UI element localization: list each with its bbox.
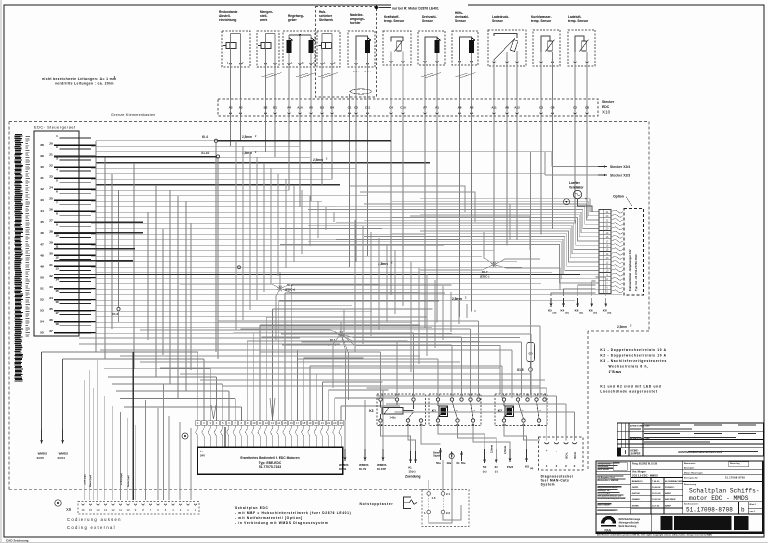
wire [96,294,622,296]
wire [260,325,540,327]
svg-text:31: 31 [495,465,499,469]
svg-text:Baumuster: Baumuster [684,462,696,465]
svg-text:17: 17 [296,421,299,425]
wire [299,117,301,207]
svg-text:Sachnummer:: Sachnummer: [684,504,699,506]
svg-text:Schaltplan EDC: Schaltplan EDC [235,506,269,510]
svg-text:27: 27 [49,219,53,223]
wire [302,341,522,343]
wires A7 A1 [425,37,437,60]
inductive pickup Hilfsdrehzahl [469,40,474,53]
svg-text:verdrillte Leitungen : ca. 20/: verdrillte Leitungen : ca. 20/m [55,82,114,86]
plug X1 dashed box [422,490,469,527]
wire [96,184,340,186]
svg-text:45: 45 [40,220,44,224]
pins of Mengenstellwerk [264,63,267,65]
zigzag pin [611,277,623,280]
svg-text:EDC- Steuergeraet: EDC- Steuergeraet [34,126,76,130]
wire [91,233,425,235]
wire [288,117,290,190]
svg-text:12: 12 [265,421,268,425]
wire [88,370,90,500]
svg-text:42: 42 [40,187,44,191]
wire [285,292,445,294]
potentiometer symbols in Regelweggeber [286,40,291,53]
wire [434,280,436,348]
zigzag pin [611,260,623,263]
wire to X2/4 [552,166,598,168]
wire [279,300,439,302]
zigzag pin [611,281,623,284]
svg-text:2,5mm: 2,5mm [490,444,494,453]
wire [315,374,317,421]
wire [556,396,558,441]
wire [185,201,187,391]
junction star Kl.1 Bat- [341,334,344,335]
wire [169,190,171,384]
wire [259,325,261,421]
svg-text:+: + [585,197,587,201]
wire [501,366,503,398]
svg-text:Codierung aussen: Codierung aussen [67,517,122,522]
svg-text:Werk Nuernberg: Werk Nuernberg [619,526,637,528]
wire sensor1 pin A3 [230,49,232,118]
svg-text:(Bat-): (Bat-) [328,343,336,347]
wire [298,358,438,360]
relay K1 pin 14 [469,398,472,401]
main title block frame [596,461,763,533]
annotation nur bei R: Motor D2876 LE401 [374,6,379,10]
svg-text:FODER 1: FODER 1 [665,487,675,489]
svg-text:50: 50 [483,465,487,469]
wire drop from Kl.10 [217,158,219,359]
wire [402,117,404,289]
svg-text:Kl. 50e: Kl. 50e [457,461,466,465]
wire [426,274,428,356]
wire [521,342,523,398]
svg-text:System: System [541,483,555,487]
wire [111,174,113,329]
power wire from Kl.4 [218,140,391,142]
wire [310,365,370,367]
fuse G6 [527,343,535,362]
wire [418,268,420,364]
svg-text:13: 13 [104,508,107,512]
relay K3 pin 15 [412,398,415,401]
arrow Kl.15P [382,449,384,461]
wire [284,293,286,421]
wire [392,201,599,216]
svg-text:▕▏: ▕▏ [623,450,628,454]
wire [190,428,192,500]
wire [83,380,85,500]
wire [147,212,149,340]
zigzag pin [611,214,623,217]
wire [260,324,420,326]
svg-text:20: 20 [315,421,318,425]
wire [240,407,242,421]
junction star Kl.7 EDC- [494,265,497,266]
wire [436,117,438,322]
svg-text:b: b [741,507,745,514]
zigzag pin [611,227,623,230]
svg-text:K3 - Nachlieferzeitgesteuert: K3 - Nachlieferzeitgesteuertes [600,359,667,363]
svg-text:13: 13 [271,421,274,425]
wire [140,330,341,334]
svg-text:16: 16 [290,421,293,425]
fanout wires from Kl.2 [280,284,380,289]
svg-text:51.17098-8708: 51.17098-8708 [725,477,745,480]
wire [96,217,437,219]
zigzag pin [611,231,623,234]
svg-text:- in Verbindung mit WMDS Diagn: - in Verbindung mit WMDS Diagnosesystem [235,521,328,525]
wires to WMDS arrows [344,420,346,449]
wire [325,207,327,230]
wire [104,368,210,370]
X9 coding connector dashed box [78,502,199,515]
revision text bars [644,425,680,426]
svg-text:Aktiengesellschaft: Aktiengesellschaft [619,521,640,524]
arrows Kl.15 Zuendung [410,451,412,463]
wire [511,350,513,398]
svg-text:MAN: MAN [605,530,611,534]
diagnostic pin 4 [554,442,558,444]
svg-text:22: 22 [526,394,530,398]
svg-text:- mit MBF = Hubschieberstellwe: - mit MBF = Hubschieberstellwerk (fuer D… [235,511,351,515]
svg-text:48: 48 [40,253,44,257]
svg-text:Typ: CA - 01 // 51.27720-7013: Typ: CA - 01 // 51.27720-7013 [634,254,638,291]
wires A4 A10 A5 [289,34,311,36]
svg-text:10.08.02: 10.08.02 [652,487,661,489]
svg-text:39: 39 [40,154,44,158]
wire [539,326,541,398]
svg-text:43: 43 [40,198,44,202]
svg-text:temp. Sensor: temp. Sensor [568,19,589,23]
wire [297,349,357,351]
relay K2 pin + [502,398,505,401]
svg-text:Drehz (opt): Drehz (opt) [127,475,130,487]
wire [304,357,364,359]
svg-text:Stecker X2/3: Stecker X2/3 [610,174,630,178]
wire [335,397,395,399]
svg-text:KS: KS [525,464,529,468]
wire [390,117,392,295]
zigzag pin [611,218,623,221]
relay K1 pin 24 [450,398,453,401]
wire [293,185,295,262]
solenoid symbol in Mengenstellwerk [261,43,271,49]
wire [437,359,439,398]
svg-text:(33): (33) [593,313,597,315]
svg-text:A1: A1 [435,106,439,110]
wire [190,223,192,370]
arrow Kl.59 [344,449,346,461]
wire [91,332,452,334]
relay K1 pin 11 [471,419,474,422]
svg-text:geber: geber [288,18,297,22]
svg-text:Kl.4: Kl.4 [202,135,208,139]
relay K3 internal wires [380,401,382,407]
wire [91,211,560,213]
wire [494,265,560,290]
wire [420,215,599,237]
relay K2 pin 11 [537,419,540,422]
svg-text:7.06.00: 7.06.00 [652,481,660,483]
svg-text:C2: C2 [573,106,577,110]
twist mark Drehzahl pair [421,73,433,77]
wire [97,360,99,500]
wire [96,316,392,318]
wire [328,390,330,421]
wire [280,228,599,257]
outer trim line left [0,0,2,543]
wire [317,201,319,238]
svg-text:X1.6: X1.6 [112,312,119,316]
svg-text:Notstopptaster: Notstopptaster [360,502,394,506]
diagnostic pin 1 [545,442,549,444]
zigzag wires under strip [196,425,198,447]
plug pin 1.4 [427,510,431,514]
svg-text:Signal: Signal [433,455,441,458]
svg-text:1° B aus: 1° B aus [609,370,622,374]
svg-text:A3: A3 [229,106,233,110]
relay K3 pin A2 [379,419,382,422]
pins of Drehzahl sensor [424,61,427,63]
wires A11 A6 A12 [493,60,495,117]
wire [145,400,147,500]
svg-text:+: + [546,449,548,453]
twist mark Hubschieber pair [318,73,330,77]
svg-text:16: 16 [82,508,85,512]
wire [380,352,382,398]
relay K1 coil [439,406,448,417]
wire [341,334,346,420]
svg-text:von 1: von 1 [750,511,756,513]
svg-text:2,5mm: 2,5mm [242,151,252,155]
wire [124,406,241,408]
wire fan to strip [578,199,600,212]
svg-text:GEPR.: GEPR. [632,487,639,489]
wire [91,167,356,169]
wire [118,190,120,307]
svg-text:12: 12 [543,394,547,398]
wire [370,232,372,336]
wire [266,316,426,318]
up arrows 50a 49a 50e [440,448,442,460]
svg-text:K2: K2 [498,409,502,413]
svg-text:Grenze Klemmenkasten: Grenze Klemmenkasten [111,113,156,117]
svg-text:47: 47 [40,242,44,246]
svg-text:Ventilator: Ventilator [569,186,584,190]
svg-text:Kl.15P: Kl.15P [377,467,386,471]
svg-text:BEARB.19: BEARB.19 [632,480,644,483]
arrow WMDS X1.55 [41,430,43,444]
svg-text:K2 - Doppelwechselrelais 10: K2 - Doppelwechselrelais 10 A [600,354,666,358]
svg-text:A8: A8 [458,106,462,110]
wire [424,117,426,328]
wire [96,173,545,175]
wire [301,190,303,254]
svg-text:SUPPER: SUPPER [631,453,641,456]
wire to fuse G6 [530,152,532,342]
wires into Kl.7 node [494,259,540,265]
wire [219,320,479,322]
pins of Hubschieber [321,63,324,65]
zigzag pin [611,239,623,242]
svg-text:nur bei R: Motor D2876 LE401: nur bei R: Motor D2876 LE401 [392,6,439,10]
wire [273,308,433,310]
svg-text:24: 24 [340,421,343,425]
wire [103,396,105,500]
wire [247,340,397,342]
svg-text:EDC: EDC [602,105,610,109]
svg-text:Sensor: Sensor [492,19,504,23]
wire [478,321,480,398]
wire [197,352,199,421]
power wire [54,260,133,262]
svg-text:41: 41 [40,176,44,180]
svg-text:- mit Notfahrmatenteil [Option: - mit Notfahrmatenteil [Option] [235,516,303,520]
zigzag pin [611,290,623,293]
svg-text:2,5mm: 2,5mm [503,445,507,454]
wire [112,383,223,385]
relay K3 pin B1 [395,398,398,401]
wire [120,355,420,357]
diagnostic pin 3 [572,442,576,444]
option dashed box Hubschieber/Nadelbewegung group [316,7,377,98]
wire X1.5 down [530,371,532,394]
svg-text:K1: K1 [432,409,436,413]
wire [408,422,416,451]
svg-text:C11: C11 [365,106,371,110]
fan motor symbol [573,190,581,198]
wire [552,117,554,229]
wire [310,117,312,201]
svg-text:Erweitertes Bedienteil f. EDC: Erweitertes Bedienteil f. EDC Motoren [240,456,299,460]
arrow WMDS X1.54 [62,430,64,444]
wire [386,403,566,405]
wire [247,341,249,421]
svg-text:35: 35 [49,307,53,311]
nested corner wires upper mid [350,186,465,212]
Klemmenkasten dashed boundary bottom [9,489,430,491]
screen dashes [353,71,359,73]
svg-text:nach WERK: nach WERK [597,469,609,471]
relay K2 dashed box [495,394,547,426]
option receiver dashed box [624,209,644,296]
svg-text:MAN Nutzfahrzeuge: MAN Nutzfahrzeuge [619,518,641,521]
wire [241,328,471,330]
svg-text:2.2: 2.2 [446,511,450,515]
wire [177,196,179,399]
wire [504,422,527,449]
Diagnosestecker dashed box [539,437,584,470]
svg-text:10.10.02: 10.10.02 [652,493,661,495]
svg-text:22: 22 [49,163,53,167]
wire [230,117,232,146]
svg-text:Freig. 01/2002 W. 10:36: Freig. 01/2002 W. 10:36 [632,463,658,465]
svg-text:23: 23 [333,421,336,425]
svg-text:2,5mm: 2,5mm [313,158,323,162]
wire [394,250,396,314]
twist mark Mengenstellwerk pair [262,73,274,77]
svg-text:16: 16 [55,300,59,304]
relay K1 dashed box [429,394,481,426]
svg-text:+24V (opt): +24V (opt) [84,474,87,485]
svg-text:30: 30 [49,252,53,256]
Klemmenkasten dashed boundary right upper [648,122,650,332]
wire [135,425,137,500]
title block right column [683,468,763,470]
wire [451,345,453,398]
wire [410,216,530,250]
zigzag pin [611,286,623,289]
wire [308,226,599,254]
wire [392,234,599,267]
wire [96,261,517,263]
wire [254,332,414,334]
wire drop from Kl.4 [215,142,217,352]
thick wire pin5 [224,427,226,447]
svg-text:Wechselrelais 6 h,: Wechselrelais 6 h, [609,365,649,369]
wire [91,321,412,323]
svg-text:40: 40 [40,165,44,169]
wire [364,220,599,245]
svg-text:15(+): 15(+) [408,470,415,474]
wire [349,117,351,267]
wire [96,250,494,252]
svg-text:52: 52 [40,297,44,301]
title block disclaimer line [596,531,763,533]
wire [140,361,460,363]
svg-text:Erzeugnis-Nr.: Erzeugnis-Nr. [684,478,698,480]
svg-text:(34): (34) [607,312,611,315]
arrow 31 minus [495,449,497,463]
wire [392,218,599,242]
wire [279,272,281,287]
svg-text:10: 10 [252,421,255,425]
EDC Steuergeraet block [34,131,79,336]
pins of Abstelleinrichtung [229,63,232,65]
svg-text:Basisplan: Basisplan [684,468,695,470]
svg-text:Luefter: Luefter [569,181,581,185]
svg-text:Sensor: Sensor [455,19,467,23]
svg-text:Schaltplan Schiffs-: Schaltplan Schiffs- [689,488,760,495]
wire [132,352,134,500]
wire [321,117,323,185]
revision table [617,423,763,456]
relay K2 pin 21 [522,419,525,422]
wire [474,310,476,312]
wire [274,117,276,157]
svg-text:18: 18 [302,421,305,425]
svg-text:Coding external: Coding external [67,525,116,530]
drawing number cell [683,501,763,503]
wire [91,189,289,191]
funnel V wires into strip [211,405,216,419]
svg-text:C1: C1 [348,106,352,110]
svg-text:15: 15 [284,421,287,425]
pins of Kraftstoff sensor [390,61,393,63]
svg-text:Norm Ing: Norm Ing [730,463,740,465]
relay K3 coil [382,408,403,415]
wire [96,272,552,274]
svg-text:Blatt 1: Blatt 1 [750,503,757,506]
wire [242,146,244,320]
wire [272,309,274,421]
wire [342,365,502,367]
pins of Ladeluft sensor [574,62,577,64]
